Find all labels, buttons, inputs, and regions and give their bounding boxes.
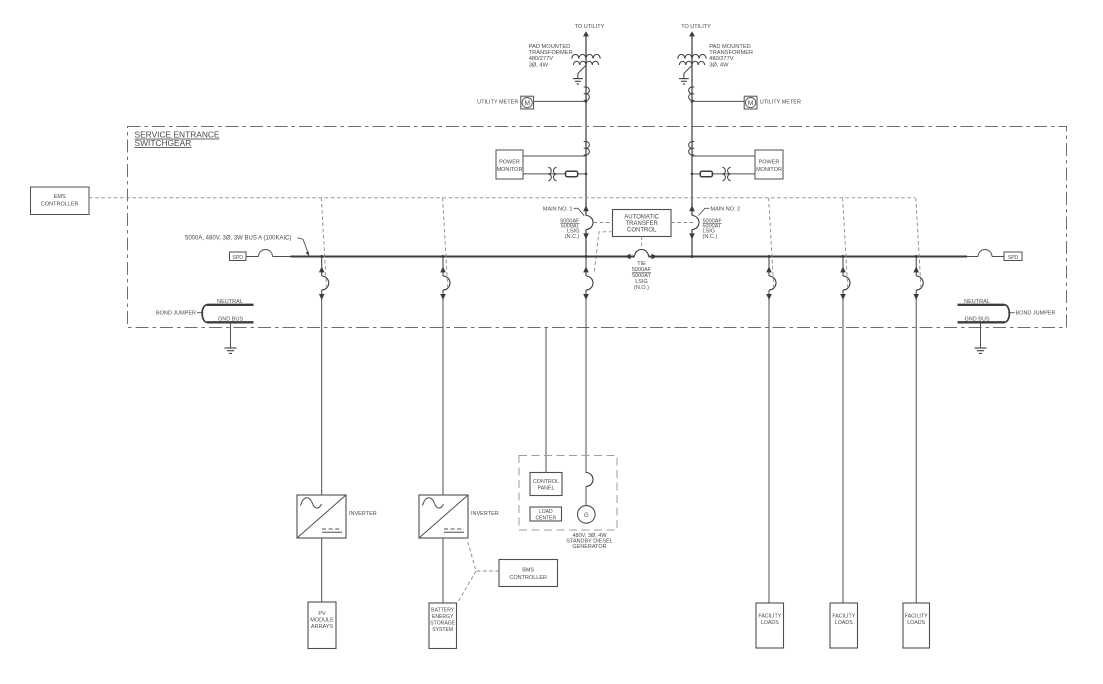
circuit breaker PV inverter feeder <box>319 257 329 301</box>
EMS controller <box>31 187 90 215</box>
facility loads 2 <box>830 603 858 648</box>
svg-text:FACILITY: FACILITY <box>758 614 781 620</box>
CT for power monitor A <box>584 142 590 155</box>
wire: facility feeder 1 down <box>768 300 770 603</box>
bond jumper label (right) <box>1008 311 1056 317</box>
svg-text:3Ø, 4W: 3Ø, 4W <box>529 62 549 68</box>
wire: meter tap B <box>692 100 744 102</box>
utility meter M2 (right) <box>744 96 757 109</box>
wire: inverter 1 to PV array <box>321 538 323 602</box>
svg-text:MODULE: MODULE <box>310 618 334 624</box>
svg-text:POWER: POWER <box>499 159 520 165</box>
automatic transfer control U1 <box>613 210 672 237</box>
svg-text:PAD MOUNTED: PAD MOUNTED <box>709 44 751 50</box>
wire: EMS control drop to facility loads feeder 2 breaker (dashed) <box>843 198 848 289</box>
svg-text:TRANSFER: TRANSFER <box>626 221 659 227</box>
transformer T2 value label <box>709 44 753 69</box>
wire: EMS control drop to facility loads feeder 3 breaker (dashed) <box>916 198 921 289</box>
MAIN NO. 1 ratings label <box>560 218 580 240</box>
svg-text:CONTROLLER: CONTROLLER <box>509 575 547 581</box>
SPD 1 (left surge protective device) <box>230 252 247 261</box>
standby diesel generator enclosure (dashed) <box>519 456 617 531</box>
svg-text:SPD: SPD <box>233 255 244 261</box>
utility meter M2 label <box>760 99 801 105</box>
wire: power monitor A PT lead <box>523 173 586 175</box>
svg-text:GND BUS: GND BUS <box>964 317 989 323</box>
wire: EMS control drop to PV inverter feeder breaker (dashed) <box>321 198 326 289</box>
MAIN NO. 2 ratings label <box>703 218 723 240</box>
CT (metering current transformer) on riser B <box>689 87 695 100</box>
svg-text:POWER: POWER <box>759 159 780 165</box>
circuit breaker MAIN NO. 2 (5000AF 5000AT LSIG N.C.) <box>689 205 699 239</box>
facility loads 1 <box>756 603 784 648</box>
svg-text:BOND JUMPER: BOND JUMPER <box>156 311 196 317</box>
wire: facility feeder 3 down <box>915 300 917 603</box>
inverter 1 (PV) <box>297 495 346 538</box>
node: MAIN1 bus junction <box>585 255 588 258</box>
circuit breaker facility loads feeder 1 <box>766 257 776 301</box>
svg-text:(N.C.): (N.C.) <box>703 234 718 240</box>
SPD 2 (right surge protective device) <box>1004 252 1022 261</box>
wire: EMS control drop to BESS inverter feeder breaker (dashed) <box>443 198 448 289</box>
wire: power monitor A CT lead <box>523 155 586 157</box>
svg-text:CENTER: CENTER <box>536 515 557 521</box>
generator load center <box>530 507 562 521</box>
TIE ratings label <box>632 261 652 291</box>
node: bus tap for PV inverter feeder <box>320 255 323 258</box>
svg-text:TO UTILITY: TO UTILITY <box>575 24 605 30</box>
wire: ATC to MAIN2 (dashed) <box>671 222 695 224</box>
utility meter M1 (left) <box>521 96 534 109</box>
node: junction dot meter tap B <box>691 100 694 103</box>
utility meter M1 label <box>477 99 518 105</box>
generator G1 <box>578 506 596 524</box>
node: bus tap for BESS inverter feeder <box>442 255 445 258</box>
svg-text:ENERGY: ENERGY <box>432 614 454 620</box>
wire: generator breaker to generator <box>585 487 587 506</box>
bond jumper (left) <box>202 305 207 323</box>
ground bus bar (left) <box>207 317 254 323</box>
PT symbol power monitor A <box>548 167 556 180</box>
node: junction dot PM A <box>585 173 588 176</box>
svg-text:PANEL: PANEL <box>538 486 555 492</box>
wire: BMS control link (dashed) <box>458 541 499 603</box>
svg-text:MAIN NO. 1: MAIN NO. 1 <box>543 206 573 212</box>
power monitor PM2 (right) <box>755 150 783 179</box>
wire: T1 center-tap to ground <box>578 65 586 78</box>
transformer T1 value label <box>529 44 573 69</box>
arrowhead to utility A <box>583 31 589 36</box>
BMS controller <box>499 560 558 587</box>
wire: feeder to inverter 2 <box>442 300 444 495</box>
svg-text:FACILITY: FACILITY <box>832 614 855 620</box>
svg-text:INVERTER: INVERTER <box>471 511 499 517</box>
neutral bus bar (left) <box>207 299 254 305</box>
svg-text:MONITOR: MONITOR <box>497 167 523 173</box>
bond jumper (right) <box>1005 305 1010 323</box>
svg-text:TRANSFORMER: TRANSFORMER <box>709 50 753 56</box>
svg-text:480/277V: 480/277V <box>529 56 554 62</box>
svg-text:BOND JUMPER: BOND JUMPER <box>1016 311 1056 317</box>
service entrance switchgear title <box>135 130 220 148</box>
svg-text:M: M <box>524 100 530 107</box>
circuit breaker generator feeder <box>583 257 593 301</box>
wire: SPD2 link with disconnect arc <box>966 250 1004 257</box>
svg-text:MAIN NO. 2: MAIN NO. 2 <box>711 206 741 212</box>
svg-text:CONTROL: CONTROL <box>627 228 657 234</box>
svg-text:SWITCHGEAR: SWITCHGEAR <box>135 138 192 148</box>
node: TO UTILITY label B <box>681 24 711 30</box>
svg-text:PV: PV <box>318 611 326 617</box>
svg-text:PAD MOUNTED: PAD MOUNTED <box>529 44 571 50</box>
svg-text:BMS: BMS <box>522 567 534 573</box>
svg-text:GND BUS: GND BUS <box>218 317 243 323</box>
neutral bus bar (right) <box>958 299 1005 305</box>
wire: ground bus stem (right) <box>980 322 982 348</box>
svg-text:(N.C.): (N.C.) <box>565 234 580 240</box>
inverter 1 label <box>349 511 377 517</box>
circuit breaker facility loads feeder 3 <box>913 257 923 301</box>
ground symbol at T2 <box>679 79 689 84</box>
inverter 2 label <box>471 511 499 517</box>
MAIN NO. 2 label and leader <box>698 206 740 215</box>
node: TO UTILITY label A <box>575 24 605 30</box>
wire: generator feeder down <box>585 300 587 473</box>
svg-text:INVERTER: INVERTER <box>349 511 377 517</box>
generator label <box>566 533 613 550</box>
node: MAIN2 bus junction <box>691 255 694 258</box>
node: bus tap for facility loads feeder 2 <box>842 255 845 258</box>
wire: facility feeder 2 down <box>842 300 844 603</box>
svg-text:AUTOMATIC: AUTOMATIC <box>624 215 659 221</box>
node: junction dot meter tap A <box>585 100 588 103</box>
wire: power monitor B PT lead <box>692 173 755 175</box>
svg-text:SYSTEM: SYSTEM <box>432 627 453 633</box>
wire: control panel lead <box>545 328 547 473</box>
svg-text:NEUTRAL: NEUTRAL <box>964 299 990 305</box>
svg-text:LOAD: LOAD <box>539 509 553 515</box>
svg-text:LOADS: LOADS <box>835 620 853 626</box>
bus A label and leader arrow <box>185 236 309 256</box>
battery energy storage system <box>429 603 457 649</box>
ground symbol (left switchgear) <box>225 348 237 353</box>
wire: utility riser A (left service) <box>585 33 587 257</box>
wire: ATC to generator breaker (dashed) <box>594 232 613 274</box>
wire: ATC to TIE breaker (dashed) <box>641 237 643 250</box>
svg-text:5000A, 480V, 3Ø, 3W BUS A (100: 5000A, 480V, 3Ø, 3W BUS A (100KAIC) <box>185 236 292 242</box>
svg-text:CONTROL: CONTROL <box>533 479 559 485</box>
node: bus tap for facility loads feeder 1 <box>768 255 771 258</box>
facility loads 3 <box>903 603 930 648</box>
generator breaker (arc) <box>586 473 593 487</box>
svg-text:LOADS: LOADS <box>907 620 925 626</box>
svg-text:LOADS: LOADS <box>761 620 779 626</box>
node: bus right end junction <box>965 255 967 257</box>
circuit breaker MAIN NO. 1 (5000AF 5000AT LSIG N.C.) <box>583 205 593 239</box>
svg-text:STORAGE: STORAGE <box>430 620 455 626</box>
CT for power monitor B <box>689 142 695 155</box>
ground symbol (right switchgear) <box>975 348 987 353</box>
service entrance switchgear enclosure (dashed) <box>128 127 1067 328</box>
svg-text:M: M <box>748 100 754 107</box>
svg-text:ARRAYS: ARRAYS <box>311 624 334 630</box>
wire: utility riser B (right service) <box>691 33 693 257</box>
MAIN NO. 1 label and leader <box>543 206 584 215</box>
wire: T2 center-tap to ground <box>684 65 692 78</box>
arrowhead to utility B <box>689 31 695 36</box>
tie circuit breaker TIE (5000AF 5000AT LSIG N.O.) <box>625 250 658 260</box>
wire: SPD1 link with disconnect arc <box>246 250 291 257</box>
bond jumper label (left) <box>156 311 204 317</box>
ground symbol at T1 <box>573 79 583 84</box>
fuse power monitor A <box>566 171 578 176</box>
CT (metering current transformer) on riser A <box>584 87 590 100</box>
power monitor PM1 (left) <box>496 150 523 179</box>
wire: inverter 2 to battery <box>442 538 444 603</box>
PV module arrays <box>308 602 336 649</box>
svg-text:UTILITY METER: UTILITY METER <box>477 99 518 105</box>
bus A 5000A 480V (main horizontal bus) <box>291 256 967 258</box>
svg-text:SPD: SPD <box>1008 255 1019 261</box>
circuit breaker facility loads feeder 2 <box>840 257 850 301</box>
wire: feeder to inverter 1 <box>321 300 323 495</box>
svg-text:(N.O.): (N.O.) <box>634 285 649 291</box>
fuse power monitor B <box>700 171 712 176</box>
transformer T1 (pad mounted, left) <box>572 54 600 65</box>
svg-text:UTILITY METER: UTILITY METER <box>760 99 801 105</box>
svg-text:FACILITY: FACILITY <box>905 614 928 620</box>
wire: power monitor B CT lead <box>692 155 755 157</box>
svg-text:BATTERY: BATTERY <box>431 607 455 613</box>
svg-text:GENERATOR: GENERATOR <box>572 544 606 550</box>
circuit breaker BESS inverter feeder <box>440 257 450 301</box>
generator control panel <box>530 473 562 496</box>
wire: ground bus stem (left) <box>230 322 232 348</box>
svg-text:CONTROLLER: CONTROLLER <box>41 202 79 208</box>
inverter 2 (BESS) <box>419 495 468 538</box>
node: bus tap for facility loads feeder 3 <box>915 255 918 258</box>
transformer T2 (pad mounted, right) <box>678 54 706 65</box>
wire: meter tap A <box>534 100 587 102</box>
node: junction dot PM B <box>691 173 694 176</box>
node: bus left end junction <box>295 255 297 257</box>
wire: EMS control drop to facility loads feeder 1 breaker (dashed) <box>769 198 774 289</box>
wire: ATC to MAIN1 (dashed) <box>594 222 613 224</box>
svg-text:NEUTRAL: NEUTRAL <box>217 299 243 305</box>
ground bus bar (right) <box>958 317 1005 323</box>
svg-text:3Ø, 4W: 3Ø, 4W <box>709 62 729 68</box>
svg-text:G: G <box>584 513 589 519</box>
wire: EMS control bus (dashed) <box>89 197 915 199</box>
svg-text:TRANSFORMER: TRANSFORMER <box>529 50 573 56</box>
svg-text:MONITOR: MONITOR <box>756 167 782 173</box>
svg-text:EMS: EMS <box>54 194 66 200</box>
svg-text:TO UTILITY: TO UTILITY <box>681 24 711 30</box>
svg-text:480/277V: 480/277V <box>709 56 734 62</box>
PT symbol power monitor B <box>722 167 730 180</box>
